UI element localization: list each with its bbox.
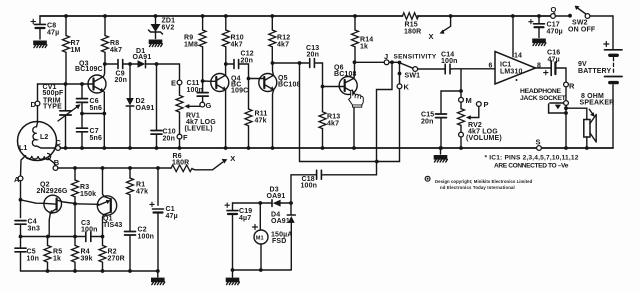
junction X drop bbox=[449, 14, 453, 18]
svg-text:R11: R11 bbox=[255, 111, 268, 118]
junction D1 anode / D2 bbox=[128, 62, 132, 66]
svg-text:BC109C: BC109C bbox=[75, 66, 103, 73]
svg-text:Q: Q bbox=[551, 5, 557, 14]
capacitor C6 bbox=[77, 84, 88, 114]
svg-text:P: P bbox=[484, 100, 489, 109]
ground below C8 bbox=[33, 41, 47, 48]
capacitor C14 bbox=[445, 64, 450, 74]
svg-text:C4: C4 bbox=[28, 219, 37, 226]
svg-text:R10: R10 bbox=[231, 35, 244, 42]
junction R14/J line bbox=[353, 60, 357, 64]
wire Q5 emitter to bus bbox=[273, 90, 274, 148]
junction R10/C12/Q4 bbox=[224, 62, 228, 66]
junction Q4 emitter bus bbox=[224, 146, 228, 150]
wire C18 riser bbox=[322, 162, 376, 175]
battery B1 9V bbox=[604, 16, 622, 148]
wire RV1 wiper bbox=[188, 105, 200, 107]
svg-text:20n: 20n bbox=[241, 58, 254, 65]
node P bbox=[476, 102, 481, 107]
svg-text:L1: L1 bbox=[19, 145, 27, 152]
resistor R13 bbox=[319, 87, 326, 149]
svg-text:100n: 100n bbox=[441, 58, 458, 65]
switch SW2 bbox=[555, 6, 589, 19]
capacitor C5 bbox=[15, 237, 26, 272]
junction C1 bottom bbox=[156, 269, 160, 273]
wire Q6 emitter to bus bbox=[353, 93, 355, 148]
junction C19 bottom bbox=[231, 268, 235, 272]
wire bottom 0V rail bbox=[21, 270, 158, 272]
svg-text:C7: C7 bbox=[90, 128, 99, 135]
capacitor C12 bbox=[226, 60, 249, 79]
wire F to bus bbox=[179, 139, 181, 148]
svg-text:M: M bbox=[466, 96, 472, 105]
resistor R1 bbox=[127, 168, 134, 231]
capacitor C9 bbox=[105, 60, 130, 69]
capacitor C19 bbox=[225, 203, 238, 270]
svg-text:C8: C8 bbox=[47, 22, 56, 29]
svg-text:100n: 100n bbox=[138, 234, 155, 241]
svg-text:C: C bbox=[56, 138, 62, 147]
junction R10 top rail bbox=[224, 14, 228, 18]
junction meter line bbox=[375, 160, 379, 164]
svg-text:ARE CONNECTED TO –Ve: ARE CONNECTED TO –Ve bbox=[494, 163, 569, 170]
svg-text:47k: 47k bbox=[255, 118, 267, 125]
capacitor C18 bbox=[317, 170, 322, 179]
svg-text:9V: 9V bbox=[578, 61, 587, 68]
svg-text:20n: 20n bbox=[115, 77, 128, 84]
svg-text:X: X bbox=[429, 32, 434, 41]
junction R3 top bbox=[73, 166, 77, 170]
ground bottom rail bbox=[151, 278, 165, 285]
headphone jack socket bbox=[549, 101, 569, 148]
wire meter bottom line bbox=[233, 269, 292, 271]
svg-text:10n: 10n bbox=[27, 256, 40, 263]
junction C1 top B line bbox=[156, 166, 160, 170]
junction meter riser bbox=[298, 61, 302, 65]
pin marker inside IC1 bbox=[516, 79, 518, 81]
transistor Q1 (unijunction) bbox=[97, 196, 116, 215]
capacitor C4 bbox=[15, 221, 26, 237]
wire meter pickup line bbox=[300, 63, 378, 162]
svg-text:C1: C1 bbox=[166, 206, 175, 213]
capacitor C3 bbox=[86, 232, 91, 242]
junction R14 top rail bbox=[353, 14, 357, 18]
op-amp IC1 LM310 bbox=[495, 14, 536, 84]
node G bbox=[200, 102, 205, 107]
svg-text:SW1: SW1 bbox=[405, 73, 421, 80]
junction Q6 base/R13 bbox=[321, 85, 325, 89]
junction C10 bus bbox=[155, 146, 159, 150]
node Q (on/off) bbox=[551, 14, 556, 19]
wire A column bbox=[20, 181, 22, 218]
capacitor C11 bbox=[197, 81, 208, 102]
svg-text:R9: R9 bbox=[184, 35, 193, 42]
wire Q4 emitter to bus bbox=[225, 90, 227, 148]
junction R13 bus bbox=[321, 146, 325, 150]
wire K column to meter line bbox=[377, 89, 400, 162]
svg-text:OA91: OA91 bbox=[133, 54, 152, 61]
resistor R12 bbox=[269, 16, 276, 63]
svg-text:R1: R1 bbox=[136, 182, 145, 189]
node B bbox=[53, 166, 58, 171]
svg-text:SW2: SW2 bbox=[572, 20, 588, 27]
zener diode ZD1 bbox=[149, 16, 163, 39]
resistor R5 bbox=[44, 237, 51, 272]
junction C6/C7/emitter bbox=[80, 112, 84, 116]
wire Q6 base bbox=[323, 86, 340, 88]
junction C15 bus bbox=[439, 146, 443, 150]
cursor hand pointer bbox=[349, 90, 364, 107]
svg-text:HEADPHONE: HEADPHONE bbox=[520, 88, 561, 95]
svg-text:TIS43: TIS43 bbox=[103, 222, 122, 229]
ground below ZD1 bbox=[149, 40, 163, 47]
svg-text:B: B bbox=[54, 158, 60, 167]
arrowhead RV1 wiper bbox=[184, 104, 189, 109]
junction D3/D4 bbox=[289, 201, 293, 205]
junction Q2 emitter / R5 bbox=[46, 235, 50, 239]
svg-text:8: 8 bbox=[537, 63, 541, 70]
svg-text:3n3: 3n3 bbox=[28, 226, 41, 233]
svg-text:R3: R3 bbox=[80, 184, 89, 191]
svg-text:R2: R2 bbox=[108, 249, 117, 256]
svg-text:BATTERY: BATTERY bbox=[578, 68, 612, 75]
capacitor C1 bbox=[150, 202, 164, 271]
svg-text:R: R bbox=[569, 82, 575, 91]
svg-text:* IC1: PINS 2,3,4,5,7,10,11,12: * IC1: PINS 2,3,4,5,7,10,11,12 bbox=[485, 155, 579, 162]
speaker LS1 8 ohm bbox=[584, 115, 596, 149]
svg-text:F: F bbox=[183, 133, 188, 142]
capacitor C2 bbox=[125, 232, 136, 272]
svg-text:A: A bbox=[14, 175, 20, 184]
resistor R3 bbox=[72, 168, 79, 237]
junction D2 bus bbox=[128, 146, 132, 150]
capacitor C7 bbox=[77, 114, 88, 149]
resistor R10 bbox=[222, 16, 229, 64]
svg-text:20n: 20n bbox=[163, 136, 176, 143]
svg-text:E: E bbox=[171, 79, 176, 88]
resistor R15 (horizontal, in rail) bbox=[403, 13, 419, 20]
wire volume feed riser bbox=[460, 69, 462, 91]
svg-text:C6: C6 bbox=[90, 98, 99, 105]
svg-text:109C: 109C bbox=[231, 88, 248, 95]
svg-text:4µ7: 4µ7 bbox=[239, 215, 251, 222]
resistor R7 bbox=[63, 16, 70, 84]
svg-text:R15: R15 bbox=[405, 22, 418, 29]
resistor R9 bbox=[199, 16, 206, 81]
wire L1 right lead to node B bbox=[48, 158, 56, 166]
wire F2 to bus bbox=[460, 137, 462, 148]
coil screened housing circle bbox=[18, 122, 57, 161]
junction SW1 pivot bbox=[398, 61, 402, 65]
junction C17 rail bbox=[537, 14, 541, 18]
resistor R2 bbox=[99, 237, 106, 272]
junction jack sleeve bbox=[564, 111, 568, 115]
svg-text:R12: R12 bbox=[277, 35, 290, 42]
junction R2 bottom bbox=[101, 269, 105, 273]
transistor Q3 bbox=[88, 75, 106, 93]
capacitor C16 bbox=[544, 61, 566, 82]
svg-text:C2: C2 bbox=[138, 227, 147, 234]
svg-text:4k7: 4k7 bbox=[327, 121, 339, 128]
resistor R8 bbox=[102, 16, 109, 64]
svg-text:C10: C10 bbox=[163, 129, 176, 136]
svg-text:5n6: 5n6 bbox=[90, 135, 103, 142]
svg-text:1k: 1k bbox=[53, 256, 61, 263]
svg-text:6V2: 6V2 bbox=[162, 25, 175, 32]
junction base/C6 column bbox=[80, 82, 84, 86]
junction R8/C9/Q3 bbox=[103, 62, 107, 66]
node D bbox=[35, 101, 40, 106]
svg-text:C16: C16 bbox=[547, 50, 560, 57]
wire +9V top rail left section bbox=[40, 15, 403, 17]
wire Q5 base bbox=[249, 78, 260, 80]
diode D2 bbox=[126, 64, 134, 148]
junction F2 bus bbox=[459, 146, 463, 150]
switch SW1 blade bbox=[400, 63, 413, 68]
svg-text:100n: 100n bbox=[301, 183, 318, 190]
wire J drop column bbox=[377, 62, 393, 161]
svg-text:L2: L2 bbox=[40, 134, 48, 141]
wire meter top line bbox=[233, 202, 273, 204]
wire B line to R6 bbox=[58, 167, 171, 169]
junction D1 cathode / C10 bbox=[155, 62, 159, 66]
diode D3 bbox=[272, 200, 291, 207]
transistor Q6 bbox=[339, 77, 357, 95]
svg-text:G: G bbox=[206, 101, 212, 110]
wire D1 output to node E bbox=[157, 64, 180, 80]
junction R8 top rail bbox=[103, 14, 107, 18]
copyright symbol bbox=[425, 176, 431, 182]
node C bbox=[56, 146, 61, 151]
junction C4/C5 bbox=[19, 235, 23, 239]
capacitor C13 bbox=[310, 59, 315, 68]
wire Q3 base line bbox=[38, 83, 89, 85]
svg-text:X: X bbox=[230, 154, 235, 163]
junction speaker bus bbox=[585, 146, 589, 150]
svg-text:2N2926G: 2N2926G bbox=[37, 188, 68, 195]
junction R7 top rail bbox=[64, 14, 68, 18]
junction R1 top bbox=[128, 166, 132, 170]
node A bbox=[18, 176, 23, 181]
wire C15 branch bbox=[441, 91, 461, 113]
svg-text:Design copyright; Minikits Ele: Design copyright; Minikits Electronics L… bbox=[435, 179, 533, 184]
svg-text:OA91: OA91 bbox=[271, 218, 290, 225]
svg-text:D: D bbox=[31, 100, 37, 109]
wire J line bbox=[355, 61, 385, 63]
diode D4 bbox=[287, 203, 295, 270]
junction R4 bottom bbox=[73, 269, 77, 273]
node J bbox=[384, 60, 389, 65]
wire Q3 collector bbox=[103, 64, 106, 76]
svg-text:500pF: 500pF bbox=[43, 90, 65, 97]
svg-text:1M: 1M bbox=[71, 47, 81, 54]
svg-text:47µ: 47µ bbox=[166, 213, 178, 220]
node F (left) bbox=[177, 134, 182, 139]
wire L1 left lead to node A bbox=[21, 156, 26, 176]
svg-text:nd Electronics Today Internati: nd Electronics Today International bbox=[440, 185, 515, 190]
junction jack/speaker bbox=[564, 106, 568, 110]
switch SW1 contact bbox=[413, 67, 418, 72]
inductor L1 bbox=[25, 153, 50, 159]
transistor Q2 bbox=[44, 195, 76, 214]
junction jack column bus bbox=[564, 146, 568, 150]
wire Q3 emitter column to bus bbox=[103, 114, 105, 149]
transistor Q5 bbox=[259, 74, 277, 92]
junction R9/Q4 base/C11 bbox=[201, 79, 205, 83]
junction drop to meter line bbox=[390, 60, 394, 64]
resistor R14 bbox=[352, 16, 359, 62]
potentiometer RV2 bbox=[458, 93, 465, 132]
svg-text:R4: R4 bbox=[81, 249, 90, 256]
capacitor C10 bbox=[151, 64, 162, 148]
wire C18 to diode pump bbox=[291, 175, 316, 203]
svg-text:47k: 47k bbox=[136, 189, 148, 196]
svg-text:IC1: IC1 bbox=[500, 62, 511, 69]
ground below C19 bbox=[226, 278, 240, 285]
svg-text:R8: R8 bbox=[110, 40, 119, 47]
svg-text:47µ: 47µ bbox=[47, 29, 59, 36]
svg-text:1k: 1k bbox=[360, 44, 368, 51]
svg-text:20n: 20n bbox=[307, 52, 320, 59]
svg-text:SENSITIVITY: SENSITIVITY bbox=[394, 53, 437, 60]
wire node D riser bbox=[37, 84, 39, 101]
wire SW1 to C14 bbox=[418, 68, 445, 70]
wire Q2 emitter down bbox=[49, 214, 50, 237]
svg-text:R13: R13 bbox=[327, 114, 340, 121]
junction R5 bottom bbox=[46, 269, 50, 273]
capacitor C8 bbox=[31, 16, 46, 39]
svg-text:14: 14 bbox=[514, 53, 522, 60]
wire IC1 output bbox=[536, 67, 551, 69]
potentiometer RV1 bbox=[176, 85, 183, 134]
svg-text:R14: R14 bbox=[360, 37, 373, 44]
wire C13 to Q6 base bbox=[315, 63, 322, 87]
svg-text:BC108: BC108 bbox=[278, 82, 301, 89]
svg-text:C17: C17 bbox=[547, 22, 560, 29]
svg-text:100n: 100n bbox=[187, 87, 204, 94]
wire Q1 B1 down bbox=[103, 215, 105, 237]
junction Q1 B1/R2 bbox=[101, 235, 105, 239]
wire X drop from rail bbox=[443, 16, 451, 32]
svg-text:LM310: LM310 bbox=[500, 69, 523, 76]
wire C13 line bbox=[273, 62, 309, 64]
svg-text:(LEVEL): (LEVEL) bbox=[185, 126, 213, 133]
svg-text:TYPE: TYPE bbox=[43, 104, 62, 111]
node F (right) bbox=[459, 132, 464, 137]
junction M1 feed bbox=[258, 201, 262, 205]
junction R11 bus bbox=[247, 146, 251, 150]
junction C7 bus bbox=[80, 146, 84, 150]
junction ZD1 top rail bbox=[154, 14, 158, 18]
arrowhead RV2 wiper bbox=[466, 115, 471, 120]
svg-text:ON OFF: ON OFF bbox=[568, 27, 596, 34]
svg-text:4k7: 4k7 bbox=[277, 42, 289, 49]
svg-text:180R: 180R bbox=[404, 29, 421, 36]
wire speaker feed bbox=[566, 108, 587, 119]
svg-text:470µ: 470µ bbox=[547, 29, 563, 36]
svg-text:47µ: 47µ bbox=[548, 57, 560, 64]
svg-text:(VOLUME): (VOLUME) bbox=[466, 135, 502, 142]
wire K branch bbox=[399, 63, 401, 85]
arrowhead X (mid) bbox=[222, 159, 228, 164]
wire Q2 base bbox=[21, 200, 44, 204]
svg-text:C15: C15 bbox=[421, 112, 434, 119]
svg-text:1M8: 1M8 bbox=[184, 42, 198, 49]
svg-text:OA91: OA91 bbox=[267, 193, 286, 200]
wire J to SW1 pivot bbox=[389, 61, 400, 63]
diode D1 bbox=[130, 60, 157, 67]
svg-text:180R: 180R bbox=[172, 160, 189, 167]
wire Q4 collector bbox=[225, 64, 227, 75]
ground below C17 bbox=[532, 39, 546, 46]
junction C12/R11/Q5 base bbox=[247, 77, 251, 81]
junction Q2 base on A column bbox=[19, 198, 23, 202]
junction C2 bottom bbox=[128, 269, 132, 273]
svg-text:C19: C19 bbox=[239, 208, 252, 215]
inductor L2 bbox=[32, 127, 37, 146]
svg-text:270R: 270R bbox=[108, 256, 125, 263]
junction R3/R4 bbox=[73, 235, 77, 239]
wire C14 to IC pin 6 bbox=[451, 68, 495, 70]
node E bbox=[177, 80, 182, 85]
svg-text:C12: C12 bbox=[241, 51, 254, 58]
svg-text:S: S bbox=[536, 138, 541, 147]
wire Q6 collector bbox=[353, 62, 356, 78]
svg-text:SPEAKER: SPEAKER bbox=[580, 100, 615, 107]
junction Q5 emitter bus bbox=[271, 146, 275, 150]
svg-text:FSD: FSD bbox=[272, 238, 286, 245]
svg-text:20n: 20n bbox=[421, 119, 434, 126]
wire R6 to X arrow bbox=[192, 162, 223, 170]
wire Q1 emitter bbox=[75, 203, 99, 206]
svg-text:BC108: BC108 bbox=[334, 71, 357, 78]
wire C1 riser bbox=[157, 168, 159, 205]
wire main 0V bus bbox=[60, 147, 613, 149]
node R bbox=[564, 82, 569, 87]
svg-text:OA91: OA91 bbox=[136, 105, 155, 112]
node M bbox=[459, 97, 464, 102]
svg-text:150k: 150k bbox=[80, 191, 96, 198]
svg-text:100n: 100n bbox=[81, 227, 98, 234]
svg-text:6: 6 bbox=[489, 63, 493, 70]
junction R9 top rail bbox=[201, 14, 205, 18]
resistor R4 bbox=[72, 237, 79, 272]
wire Q4 base bbox=[203, 80, 211, 82]
svg-text:5n6: 5n6 bbox=[90, 105, 103, 112]
wire L2 bottom lead to node C bbox=[37, 146, 56, 148]
junction Q3 emitter bus bbox=[102, 146, 106, 150]
svg-text:ZD1: ZD1 bbox=[162, 18, 176, 25]
svg-text:J: J bbox=[384, 52, 388, 61]
svg-text:4k7: 4k7 bbox=[110, 47, 122, 54]
wire L2 top lead bbox=[37, 123, 38, 127]
junction CV1 bus bbox=[64, 146, 68, 150]
wire D to coil bbox=[37, 106, 39, 123]
junction M1 bottom bbox=[259, 268, 263, 272]
svg-text:R5: R5 bbox=[53, 249, 62, 256]
svg-text:K: K bbox=[404, 83, 410, 92]
wire RV2 wiper bbox=[470, 106, 479, 117]
capacitor C17 bbox=[529, 16, 545, 38]
node K bbox=[397, 84, 402, 89]
svg-text:C5: C5 bbox=[27, 249, 36, 256]
wire C4/C5 to R2 line bbox=[21, 236, 85, 238]
wire Q1 B2 up bbox=[103, 168, 105, 197]
arrowhead speaker feed bbox=[589, 109, 592, 114]
resistor R11 bbox=[245, 79, 252, 149]
junction R3/Q1 emitter bbox=[73, 202, 77, 206]
meter M1 bbox=[253, 203, 269, 270]
